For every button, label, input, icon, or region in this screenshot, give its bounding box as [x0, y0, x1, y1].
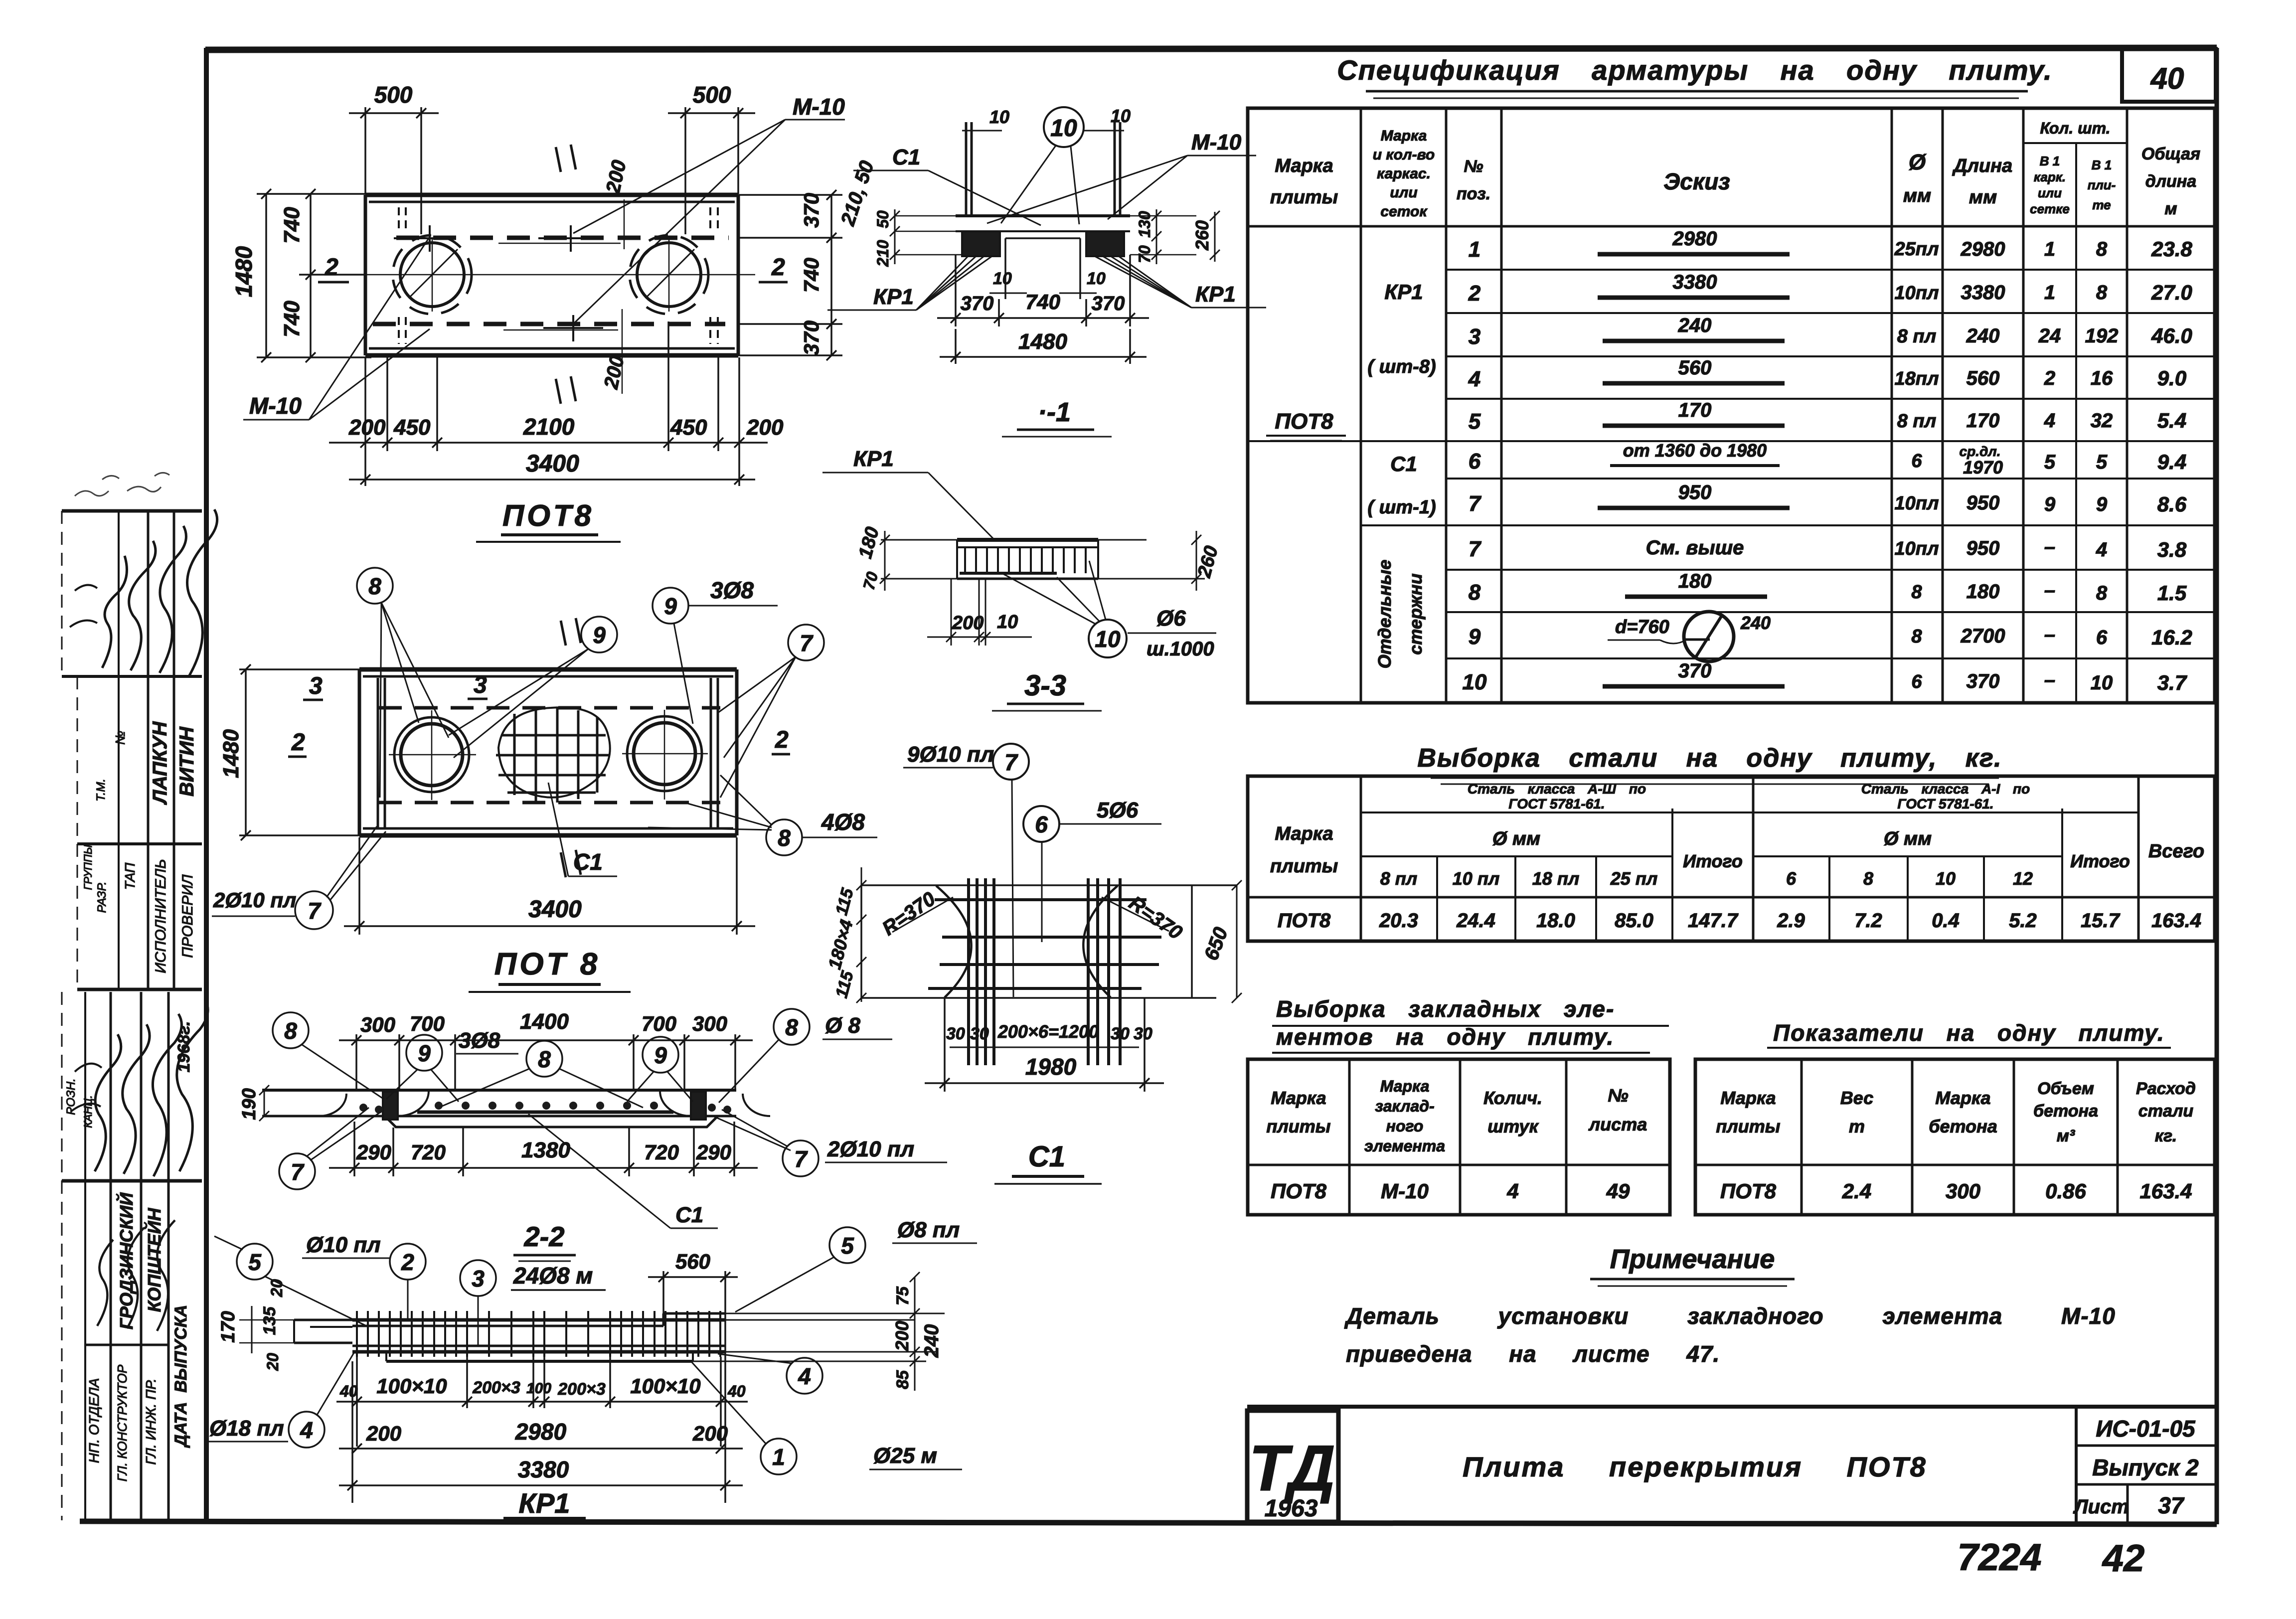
svg-text:290: 290 — [696, 1140, 731, 1164]
svg-text:С1: С1 — [892, 145, 920, 169]
dim 3380 — [339, 1457, 743, 1490]
steel summary data row — [1278, 910, 2201, 932]
svg-text:10: 10 — [2091, 672, 2113, 694]
hole circle left — [393, 235, 472, 314]
svg-text:поз.: поз. — [1457, 184, 1490, 203]
svg-text:24: 24 — [2038, 325, 2061, 347]
svg-text:0.86: 0.86 — [2045, 1179, 2086, 1203]
section mark 2 right — [759, 254, 788, 282]
svg-text:Выпуск 2: Выпуск 2 — [2092, 1455, 2199, 1480]
svg-text:370: 370 — [1967, 670, 2000, 692]
svg-text:2-2: 2-2 — [524, 1221, 565, 1252]
svg-text:200×6=1200: 200×6=1200 — [997, 1021, 1099, 1042]
svg-text:ТАП: ТАП — [122, 862, 138, 890]
label M-10 bottom left — [243, 238, 430, 420]
svg-text:8: 8 — [1863, 868, 1873, 889]
svg-text:РОЗН.: РОЗН. — [64, 1078, 78, 1115]
title C1 — [994, 1140, 1102, 1184]
svg-text:Марка: Марка — [1720, 1088, 1776, 1108]
section mark 2 drawing2 — [288, 727, 790, 757]
callout 10 sec33 — [1002, 561, 1127, 657]
svg-text:240: 240 — [1966, 325, 2000, 347]
svg-text:№: № — [1608, 1085, 1628, 1106]
svg-text:Ø мм: Ø мм — [1884, 828, 1932, 849]
svg-text:5Ø6: 5Ø6 — [1097, 798, 1139, 822]
svg-text:Колич.: Колич. — [1483, 1088, 1542, 1108]
plan view POT8 (top drawing) — [349, 195, 755, 355]
svg-text:КАНЦ.: КАНЦ. — [82, 1095, 94, 1128]
svg-text:4: 4 — [798, 1363, 811, 1389]
callout 4 right KR1 — [718, 1354, 822, 1394]
svg-text:950: 950 — [1967, 492, 2000, 514]
svg-text:ПОТ 8: ПОТ 8 — [494, 947, 600, 981]
svg-text:30: 30 — [946, 1024, 965, 1043]
svg-text:1: 1 — [2044, 282, 2055, 304]
svg-text:ТД: ТД — [1249, 1432, 1335, 1504]
svg-text:9: 9 — [654, 1042, 667, 1068]
right dim chain — [892, 1272, 943, 1391]
svg-text:Марка: Марка — [1381, 128, 1427, 144]
svg-text:85: 85 — [893, 1370, 912, 1389]
svg-text:Общая: Общая — [2141, 145, 2200, 163]
dim 560 top right — [648, 1250, 738, 1321]
dim 2980 — [339, 1419, 743, 1454]
steel summary table grid — [1248, 776, 2215, 941]
svg-text:4: 4 — [2096, 539, 2107, 561]
left dims 50 210 — [874, 209, 962, 267]
label 24d8 — [511, 1263, 606, 1290]
title 1-1 — [1002, 397, 1112, 437]
svg-text:В 1: В 1 — [2092, 158, 2112, 172]
svg-text:8: 8 — [778, 825, 791, 851]
svg-text:950: 950 — [1678, 482, 1712, 503]
callout 7 above C1 — [903, 742, 1029, 997]
dims below 2-2 — [329, 1122, 758, 1176]
svg-text:30: 30 — [970, 1024, 989, 1043]
svg-text:2980: 2980 — [1672, 228, 1717, 250]
svg-text:ш.1000: ш.1000 — [1147, 638, 1214, 660]
svg-text:200×3: 200×3 — [472, 1378, 520, 1397]
svg-text:16: 16 — [2091, 367, 2113, 389]
svg-text:240: 240 — [921, 1324, 943, 1358]
spec rows: pos numbers — [1463, 237, 1487, 694]
svg-text:9: 9 — [2044, 493, 2056, 515]
end anchors hatched — [383, 1092, 398, 1120]
svg-text:40: 40 — [2150, 62, 2184, 95]
svg-text:( шт-1): ( шт-1) — [1367, 497, 1436, 518]
svg-text:9: 9 — [1469, 625, 1481, 649]
svg-text:элемента: элемента — [1364, 1137, 1445, 1155]
svg-text:ВИТИН: ВИТИН — [176, 726, 198, 797]
svg-text:8: 8 — [2096, 282, 2108, 304]
svg-text:пли-: пли- — [2088, 177, 2116, 192]
svg-text:0.4: 0.4 — [1932, 910, 1960, 932]
callout 6 above C1 — [1023, 798, 1161, 942]
svg-text:стержни: стержни — [1405, 573, 1426, 654]
svg-text:КР1: КР1 — [519, 1487, 570, 1519]
svg-text:·-1: ·-1 — [1038, 397, 1071, 427]
svg-text:40: 40 — [339, 1382, 358, 1400]
callout 8 right bottom with 4d8 — [648, 775, 877, 855]
dashed top rebar — [379, 706, 720, 710]
svg-text:170: 170 — [1967, 410, 2000, 432]
bottom small dims C1 — [946, 1021, 1152, 1047]
svg-text:200: 200 — [348, 415, 386, 440]
svg-text:2: 2 — [401, 1249, 414, 1275]
svg-text:Эскиз: Эскиз — [1663, 168, 1730, 194]
svg-text:2980: 2980 — [515, 1419, 567, 1445]
svg-text:6: 6 — [1911, 451, 1922, 472]
svg-text:200: 200 — [746, 415, 784, 440]
svg-text:6: 6 — [1469, 449, 1481, 474]
right dim 650 — [1200, 880, 1242, 1003]
svg-text:75: 75 — [893, 1286, 912, 1305]
svg-text:5: 5 — [2044, 451, 2056, 473]
svg-text:10: 10 — [1463, 670, 1487, 694]
left dims 115 180x4 115 — [824, 867, 866, 1003]
svg-text:8.6: 8.6 — [2157, 492, 2187, 516]
KR1 carcass elevation — [205, 1218, 977, 1519]
spec table header title — [1337, 54, 2052, 98]
svg-text:300: 300 — [1946, 1179, 1980, 1203]
svg-text:сетке: сетке — [2030, 201, 2070, 216]
svg-text:950: 950 — [1967, 537, 2000, 559]
embed plate marks corners — [394, 207, 718, 344]
svg-text:Всего: Всего — [2148, 841, 2204, 862]
stamp signatures bottom — [71, 999, 208, 1331]
svg-text:мм: мм — [1969, 187, 1997, 208]
svg-text:210: 210 — [874, 240, 892, 267]
callout 3 KR1 — [460, 1260, 496, 1346]
svg-text:Ø18 пл: Ø18 пл — [209, 1416, 284, 1441]
mesh C1 drawing — [824, 742, 1242, 1184]
svg-text:200: 200 — [952, 613, 984, 634]
svg-text:ИС-01-05: ИС-01-05 — [2096, 1416, 2196, 1442]
mesh verticals — [969, 878, 1120, 1065]
svg-text:720: 720 — [644, 1140, 679, 1164]
svg-text:Итого: Итого — [1683, 851, 1743, 871]
svg-text:М-10: М-10 — [1381, 1179, 1429, 1203]
small dims 10 under ribs — [989, 269, 1106, 293]
svg-text:3380: 3380 — [1961, 282, 2005, 304]
svg-text:5: 5 — [841, 1233, 854, 1259]
section 3-3 — [822, 447, 1222, 711]
svg-text:5.4: 5.4 — [2157, 409, 2186, 432]
svg-text:200×3: 200×3 — [557, 1380, 606, 1399]
svg-text:27.0: 27.0 — [2151, 281, 2192, 304]
svg-text:3400: 3400 — [528, 896, 582, 923]
spec table headers — [1270, 119, 2200, 220]
svg-text:5: 5 — [248, 1249, 262, 1275]
svg-text:560: 560 — [675, 1250, 710, 1273]
svg-text:3: 3 — [474, 672, 487, 698]
svg-text:С1: С1 — [573, 849, 603, 875]
svg-text:2Ø10 пл: 2Ø10 пл — [827, 1137, 914, 1161]
label KR1 right sec11 — [1095, 256, 1266, 308]
band — [957, 538, 1098, 542]
right vertical bars — [710, 678, 712, 827]
svg-text:192: 192 — [2085, 325, 2119, 347]
svg-text:длина: длина — [2145, 172, 2196, 191]
svg-text:450: 450 — [393, 415, 431, 440]
svg-text:100×10: 100×10 — [630, 1374, 700, 1398]
section 1-1 — [827, 106, 1266, 437]
svg-text:3380: 3380 — [518, 1457, 569, 1482]
svg-text:Вес: Вес — [1840, 1088, 1873, 1108]
section mark 1-1 top — [556, 145, 576, 172]
right extension lines — [725, 1313, 945, 1314]
svg-text:кг.: кг. — [2155, 1127, 2177, 1145]
svg-text:450: 450 — [670, 415, 707, 440]
svg-text:М-10: М-10 — [1191, 130, 1242, 155]
svg-text:плиты: плиты — [1716, 1116, 1780, 1136]
right dim 260 sec33 — [1191, 531, 1222, 591]
posts — [965, 122, 968, 216]
left dim 1480 drawing2 — [219, 664, 364, 840]
svg-text:плиты: плиты — [1270, 187, 1338, 208]
svg-text:370: 370 — [800, 193, 823, 228]
left dims 1480 740 740 — [231, 189, 371, 362]
svg-text:2: 2 — [291, 729, 305, 756]
dim 200 inner top — [498, 158, 631, 249]
svg-text:4: 4 — [1468, 367, 1480, 391]
callout 4 left KR1 — [205, 1353, 354, 1448]
svg-text:7: 7 — [1469, 537, 1482, 561]
svg-text:170: 170 — [1678, 399, 1712, 421]
callout 7 right 2-2 — [712, 1110, 947, 1176]
svg-text:8: 8 — [2096, 238, 2108, 260]
dim 500 right — [668, 82, 755, 234]
svg-text:740: 740 — [800, 258, 823, 293]
svg-text:2700: 2700 — [1961, 625, 2005, 647]
svg-text:Марка: Марка — [1275, 823, 1333, 844]
svg-text:заклад-: заклад- — [1375, 1097, 1434, 1115]
svg-text:ПОТ8: ПОТ8 — [502, 499, 594, 532]
svg-text:Выборка закладных эле-: Выборка закладных эле- — [1276, 996, 1615, 1022]
svg-text:стали: стали — [2138, 1102, 2194, 1121]
spec diameters col — [1894, 239, 1939, 692]
title 3-3 — [992, 669, 1102, 711]
spec qty cols — [2038, 238, 2119, 694]
svg-text:1480: 1480 — [231, 246, 257, 297]
spec col1 col2 groups — [1275, 280, 1436, 668]
spec total col — [2151, 237, 2192, 694]
svg-text:560: 560 — [1967, 367, 2000, 389]
svg-text:200: 200 — [692, 1422, 728, 1445]
svg-text:9Ø10 пл: 9Ø10 пл — [907, 742, 994, 767]
svg-text:170: 170 — [218, 1311, 239, 1342]
svg-text:плиты: плиты — [1266, 1116, 1330, 1136]
svg-text:Ø мм: Ø мм — [1492, 828, 1540, 849]
stamp signatures top — [70, 509, 217, 675]
svg-text:4Ø8: 4Ø8 — [821, 809, 865, 835]
svg-text:46.0: 46.0 — [2151, 324, 2192, 347]
svg-text:ПРОВЕРИЛ: ПРОВЕРИЛ — [179, 874, 196, 958]
svg-text:С1: С1 — [675, 1203, 703, 1227]
svg-text:т: т — [1849, 1116, 1865, 1136]
svg-text:4: 4 — [300, 1417, 313, 1443]
title POT8 second — [469, 947, 631, 992]
svg-text:290: 290 — [356, 1140, 391, 1164]
svg-text:9: 9 — [2096, 493, 2108, 515]
svg-text:или: или — [2038, 185, 2062, 200]
svg-text:сеток: сеток — [1380, 203, 1428, 220]
svg-text:32: 32 — [2091, 410, 2113, 432]
embed elements table — [1248, 1059, 1670, 1215]
callout 1 KR1 — [692, 1362, 962, 1474]
svg-text:7: 7 — [1469, 491, 1482, 516]
svg-text:Примечание: Примечание — [1610, 1244, 1775, 1274]
svg-text:Деталь установки закладного: Деталь установки закладного элемента М-1… — [1344, 1303, 2116, 1329]
svg-text:бетона: бетона — [2033, 1102, 2098, 1121]
top dim row 300 700 1400 700 300 — [339, 1009, 753, 1090]
svg-text:30: 30 — [1111, 1024, 1130, 1043]
logo TD 1963 — [1249, 1432, 1335, 1522]
svg-text:7: 7 — [800, 630, 814, 656]
callout 7 bottom left with 2d10 — [212, 826, 386, 929]
svg-text:8: 8 — [785, 1014, 798, 1040]
callout 7 right top — [718, 625, 824, 798]
svg-text:мм: мм — [1903, 185, 1931, 206]
svg-text:2980: 2980 — [1961, 238, 2005, 260]
svg-text:Ø: Ø — [1909, 150, 1927, 174]
svg-text:КР1: КР1 — [1384, 280, 1423, 304]
left dim 190 — [239, 1085, 269, 1121]
svg-text:1480: 1480 — [219, 729, 243, 778]
svg-text:200: 200 — [892, 1321, 912, 1351]
svg-text:7: 7 — [794, 1146, 808, 1172]
label M-10 top — [573, 94, 845, 323]
label KR1 sec33 — [822, 447, 996, 541]
stirrups in band — [965, 547, 1086, 573]
svg-text:12: 12 — [2013, 868, 2033, 889]
svg-text:8: 8 — [2096, 582, 2108, 604]
svg-text:300: 300 — [692, 1012, 727, 1035]
callout 9 mid — [449, 617, 617, 758]
svg-text:или: или — [1390, 184, 1417, 201]
bottom mesh bar with dots — [417, 1111, 673, 1114]
svg-text:8 пл: 8 пл — [1380, 868, 1417, 889]
svg-text:1970: 1970 — [1963, 457, 2003, 478]
svg-text:720: 720 — [411, 1140, 446, 1164]
svg-text:20.3: 20.3 — [1379, 910, 1418, 932]
right dims 370 740 370 — [733, 158, 878, 360]
callouts above 2-2 — [273, 1009, 892, 1108]
svg-text:бетона: бетона — [1929, 1116, 1997, 1136]
concave cuts — [936, 886, 972, 997]
svg-text:24Ø8 м: 24Ø8 м — [513, 1263, 593, 1289]
indicators table title — [1767, 1020, 2171, 1048]
svg-text:ГОСТ 5781-61.: ГОСТ 5781-61. — [1897, 796, 1993, 811]
svg-text:d=760: d=760 — [1615, 617, 1669, 638]
svg-text:Марка: Марка — [1380, 1077, 1430, 1095]
svg-text:740: 740 — [280, 207, 304, 244]
svg-text:3: 3 — [309, 673, 323, 699]
svg-text:10: 10 — [997, 612, 1018, 633]
label C1 leader — [548, 783, 617, 876]
svg-text:10 пл: 10 пл — [1453, 868, 1499, 889]
title KR1 — [503, 1487, 586, 1519]
svg-text:8: 8 — [1469, 580, 1481, 605]
svg-text:6: 6 — [1911, 671, 1922, 692]
svg-text:190: 190 — [239, 1088, 260, 1120]
svg-text:Марка: Марка — [1271, 1088, 1326, 1108]
left small dims — [218, 1279, 294, 1371]
svg-text:м³: м³ — [2057, 1127, 2076, 1145]
svg-text:1980: 1980 — [1025, 1054, 1077, 1080]
svg-text:9: 9 — [593, 622, 606, 648]
label d6 sh1000 — [1128, 606, 1216, 660]
svg-text:370: 370 — [1092, 293, 1125, 315]
svg-text:180: 180 — [1678, 570, 1712, 592]
svg-text:См. выше: См. выше — [1646, 537, 1744, 559]
section mark 1-1 ticks drawing2 — [561, 618, 581, 877]
svg-text:М-10: М-10 — [793, 94, 845, 120]
svg-text:7224: 7224 — [1957, 1536, 2041, 1579]
svg-text:180: 180 — [1967, 581, 2000, 603]
svg-text:№: № — [1464, 157, 1483, 176]
svg-text:7: 7 — [1004, 749, 1018, 775]
svg-text:ИСПОЛНИТЕЛЬ: ИСПОЛНИТЕЛЬ — [153, 859, 169, 973]
svg-text:КР1: КР1 — [873, 285, 914, 309]
svg-text:7: 7 — [308, 898, 322, 924]
svg-text:Спецификация арматуры на одн: Спецификация арматуры на одну плиту. — [1337, 54, 2052, 86]
svg-text:2: 2 — [775, 727, 789, 753]
svg-text:Итого: Итого — [2070, 851, 2130, 871]
svg-text:1: 1 — [2044, 238, 2055, 260]
svg-text:130: 130 — [1136, 211, 1153, 238]
label M-10 sec11 — [987, 130, 1256, 223]
svg-text:КР1: КР1 — [853, 447, 894, 471]
svg-text:КР1: КР1 — [1195, 282, 1236, 307]
hole circle left — [389, 710, 476, 800]
svg-text:5.2: 5.2 — [2009, 910, 2037, 932]
svg-text:2: 2 — [2044, 367, 2055, 389]
svg-text:9: 9 — [418, 1040, 431, 1066]
svg-text:8 пл: 8 пл — [1897, 411, 1937, 432]
handwritten numbers bottom — [1957, 1536, 2144, 1580]
svg-text:РАЗР.: РАЗР. — [95, 882, 109, 913]
svg-text:Лист: Лист — [2073, 1496, 2129, 1518]
svg-text:–: – — [2044, 669, 2055, 691]
stirrup ticks — [357, 1311, 720, 1357]
svg-text:8: 8 — [368, 573, 381, 599]
chords — [352, 1318, 725, 1322]
svg-text:163.4: 163.4 — [2139, 1179, 2192, 1203]
plan view POT8 (second drawing, reinforcement) — [359, 669, 737, 835]
svg-text:1: 1 — [772, 1444, 785, 1470]
svg-text:6: 6 — [2096, 627, 2108, 648]
svg-text:листа: листа — [1588, 1114, 1647, 1134]
svg-text:740: 740 — [1025, 290, 1060, 314]
section 2-2 drawing — [239, 1009, 947, 1290]
svg-text:6: 6 — [1035, 811, 1048, 837]
embed elements table title — [1272, 996, 1669, 1053]
svg-text:18пл: 18пл — [1894, 368, 1939, 389]
svg-text:–: – — [2044, 624, 2055, 646]
svg-text:3-3: 3-3 — [1024, 669, 1066, 702]
svg-text:Расход: Расход — [2136, 1079, 2196, 1098]
svg-text:НП. ОТДЕЛА: НП. ОТДЕЛА — [86, 1378, 102, 1463]
dashed rebar line lower — [373, 322, 725, 326]
svg-text:Ø6: Ø6 — [1156, 606, 1186, 631]
svg-text:штук: штук — [1487, 1116, 1539, 1136]
svg-text:8: 8 — [1911, 626, 1922, 647]
mesh horizontals — [928, 900, 1161, 988]
svg-text:49: 49 — [1606, 1179, 1630, 1203]
svg-text:1.5: 1.5 — [2157, 581, 2187, 605]
svg-text:260: 260 — [1192, 220, 1212, 251]
